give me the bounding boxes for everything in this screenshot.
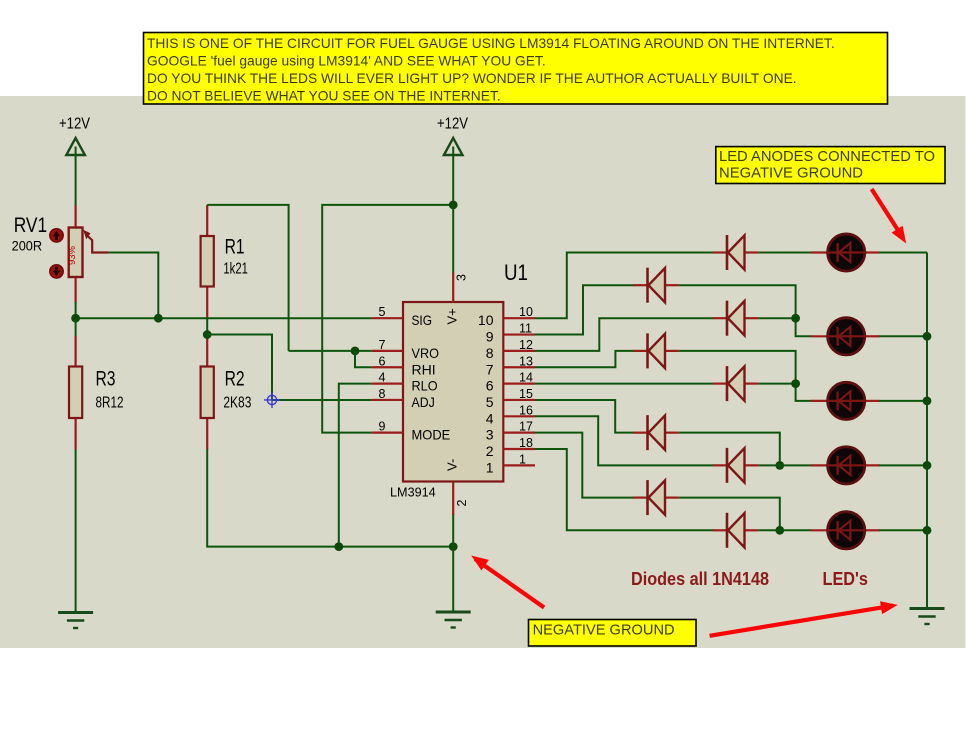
svg-text:6: 6 xyxy=(379,354,386,368)
LED D14 xyxy=(811,512,880,549)
+12V power symbol (left) xyxy=(59,115,90,155)
svg-text:8: 8 xyxy=(486,345,494,361)
svg-text:RLO: RLO xyxy=(412,378,438,394)
pin 7 stub (VRO) xyxy=(372,338,439,361)
wire +12V right down to node xyxy=(452,147,454,205)
pin 16 stub (LED output L4) xyxy=(486,403,535,426)
svg-text:NEGATIVE GROUND: NEGATIVE GROUND xyxy=(719,166,863,182)
wire D5 to junction xyxy=(758,383,795,385)
svg-text:200R: 200R xyxy=(12,238,42,254)
wire RHI branch xyxy=(355,351,372,367)
diode D2 1N4148 xyxy=(634,268,679,303)
wire pin15 to D6 xyxy=(535,400,635,433)
value 1k21 xyxy=(223,260,248,277)
pin 10 stub (LED output L10) xyxy=(478,305,535,328)
wire pin12 to D3 xyxy=(535,318,714,351)
junction RLO on negative rail xyxy=(334,542,343,551)
junction R1/R2/ADJ node xyxy=(203,330,212,339)
svg-text:5: 5 xyxy=(379,305,386,319)
wire VRO net xyxy=(289,350,372,352)
svg-text:2: 2 xyxy=(455,500,469,507)
wire right bus xyxy=(926,253,928,609)
svg-text:4: 4 xyxy=(379,371,386,385)
svg-text:10: 10 xyxy=(519,305,533,319)
svg-text:7: 7 xyxy=(486,361,494,377)
label R2 xyxy=(225,367,245,390)
svg-text:3: 3 xyxy=(486,427,494,443)
LED D10 xyxy=(811,234,880,271)
svg-text:R3: R3 xyxy=(96,367,116,390)
svg-text:SIG: SIG xyxy=(412,312,433,328)
wire R2 bottom to negative rail xyxy=(207,449,453,547)
wire pin18 to D9 xyxy=(535,449,714,530)
junction bus LED2 xyxy=(923,332,932,341)
svg-text:18: 18 xyxy=(519,436,533,450)
value 2K83 xyxy=(223,394,251,411)
wire R3 bottom to ground xyxy=(75,449,77,612)
junction pin2 on negative rail xyxy=(449,542,458,551)
annotation box: LED anodes xyxy=(716,147,945,184)
pin 14 stub (LED output L6) xyxy=(486,371,535,394)
junction bus LED3 xyxy=(923,397,932,406)
svg-text:DO NOT BELIEVE WHAT YOU SEE ON: DO NOT BELIEVE WHAT YOU SEE ON THE INTER… xyxy=(147,89,501,104)
label R3 xyxy=(96,367,116,390)
RV1 decrement button (down arrow) xyxy=(50,265,63,278)
label RV1 xyxy=(14,214,48,237)
svg-text:1k21: 1k21 xyxy=(223,260,248,277)
wire LED2 to bus xyxy=(879,335,927,337)
wire pin13 to D4 xyxy=(535,351,635,367)
diode D4 1N4148 xyxy=(634,333,679,368)
diode D1 1N4148 xyxy=(713,235,758,270)
diode D9 1N4148 xyxy=(713,513,758,548)
svg-text:4: 4 xyxy=(486,410,494,426)
wire D6 down to LED4 row xyxy=(679,433,780,466)
ground (left) xyxy=(58,613,93,629)
pin 15 stub (LED output L5) xyxy=(486,387,535,410)
svg-text:5: 5 xyxy=(486,394,494,410)
svg-text:VRO: VRO xyxy=(412,345,440,361)
pin number 2 xyxy=(455,500,469,507)
label R1 xyxy=(225,236,245,259)
resistor R3 xyxy=(69,336,82,450)
wire rail down to R3 xyxy=(75,318,77,336)
wire D1 to LED1 xyxy=(758,252,811,254)
wire pin11 to D2 xyxy=(535,285,635,334)
svg-text:ADJ: ADJ xyxy=(412,394,435,410)
RV1 increment button (up arrow) xyxy=(50,229,63,242)
wire LED3 to bus xyxy=(879,400,927,402)
resistor R1 xyxy=(201,205,214,318)
svg-text:9: 9 xyxy=(379,420,386,434)
LED D13 xyxy=(811,447,880,484)
pin 11 stub (LED output L9) xyxy=(486,322,535,345)
svg-text:RV1: RV1 xyxy=(14,214,48,237)
svg-text:R1: R1 xyxy=(225,236,245,259)
svg-text:10: 10 xyxy=(478,312,494,328)
annotation box: internet warning xyxy=(144,33,888,105)
svg-text:MODE: MODE xyxy=(412,427,451,443)
svg-text:LED ANODES CONNECTED TO: LED ANODES CONNECTED TO xyxy=(719,149,935,165)
svg-text:9: 9 xyxy=(486,329,494,345)
svg-text:6: 6 xyxy=(486,378,494,394)
svg-text:V-: V- xyxy=(445,459,460,471)
label LM3914 xyxy=(390,484,436,499)
svg-text:V+: V+ xyxy=(445,308,460,324)
annotation box: negative ground xyxy=(529,620,697,647)
LED D11 xyxy=(811,318,880,355)
wire V+ node down to pin 3 xyxy=(452,205,454,274)
junction D3/LED2 net xyxy=(791,314,800,323)
junction bus LED5 xyxy=(923,526,932,535)
potentiometer RV1 body xyxy=(67,205,82,303)
wire D2 down to LED2 row xyxy=(679,285,811,336)
svg-text:17: 17 xyxy=(519,420,533,434)
junction D8/LED5 net xyxy=(775,526,784,535)
pin name V+ xyxy=(445,308,460,324)
pin 6 stub (RHI) xyxy=(372,354,436,377)
op-amp U1 LM3914 body xyxy=(403,302,503,482)
wire D9 to LED5 xyxy=(758,529,811,531)
wire LED4 to bus xyxy=(879,464,927,466)
pin name V- xyxy=(445,459,460,471)
diode D8 1N4148 xyxy=(634,480,679,515)
svg-text:GOOGLE 'fuel gauge using LM391: GOOGLE 'fuel gauge using LM3914' AND SEE… xyxy=(147,54,546,69)
svg-text:LED's: LED's xyxy=(823,568,869,589)
svg-text:8R12: 8R12 xyxy=(96,394,124,411)
diode D5 1N4148 xyxy=(713,366,758,401)
junction at RV1 bottom xyxy=(71,314,80,323)
svg-text:1: 1 xyxy=(519,452,526,466)
diode D6 1N4148 xyxy=(634,415,679,450)
pin 2 stub (V-) xyxy=(452,482,454,516)
wire D4 down to LED3 row xyxy=(679,351,811,401)
label LED's xyxy=(823,568,869,589)
pin 1 stub (LED output L1) xyxy=(486,452,535,475)
wire R1 top to VRO column xyxy=(207,205,288,351)
svg-text:93%: 93% xyxy=(67,245,78,265)
wire pin16 to D7 xyxy=(535,416,714,465)
junction D5/LED3 net xyxy=(791,379,800,388)
ground (right) xyxy=(910,609,945,625)
svg-text:2: 2 xyxy=(486,443,494,459)
wire MODE to +12V rail xyxy=(322,205,453,433)
pin 3 stub (V+) xyxy=(452,273,454,303)
svg-text:R2: R2 xyxy=(225,367,245,390)
+12V power symbol (right) xyxy=(437,115,468,155)
ground (middle) xyxy=(436,612,471,628)
svg-text:NEGATIVE GROUND: NEGATIVE GROUND xyxy=(533,623,675,639)
svg-text:15: 15 xyxy=(519,387,533,401)
svg-text:+12V: +12V xyxy=(59,115,90,132)
origin marker on ADJ wire xyxy=(264,392,280,408)
wire LED5 to bus xyxy=(879,529,927,531)
svg-text:14: 14 xyxy=(519,371,533,385)
junction VRO/RHI xyxy=(351,347,360,356)
wire pin2 to ground xyxy=(452,514,454,612)
svg-text:16: 16 xyxy=(519,403,533,417)
svg-text:+12V: +12V xyxy=(437,115,468,132)
junction bus LED4 xyxy=(923,461,932,470)
svg-text:DO YOU THINK THE LEDS WILL EVE: DO YOU THINK THE LEDS WILL EVER LIGHT UP… xyxy=(147,71,797,86)
value 200R xyxy=(12,238,42,254)
diode D3 1N4148 xyxy=(713,301,758,336)
svg-text:RHI: RHI xyxy=(412,361,436,377)
wire pin17 to D8 xyxy=(535,433,635,498)
pin 17 stub (LED output L3) xyxy=(486,420,535,443)
pin 18 stub (LED output L2) xyxy=(486,436,535,459)
wire D3 to junction xyxy=(758,317,795,319)
wire RV1 wiper to SIG rail xyxy=(109,253,159,319)
pin 8 stub (ADJ) xyxy=(372,387,435,410)
pin 12 stub (LED output L8) xyxy=(486,338,535,361)
pin 4 stub (RLO) xyxy=(372,371,438,394)
value 8R12 xyxy=(96,394,124,411)
svg-text:8: 8 xyxy=(379,387,386,401)
label U1 xyxy=(504,260,528,285)
wire LED1 to bus corner xyxy=(879,252,927,254)
wire pin10 to D1 xyxy=(535,253,714,319)
svg-text:Diodes all 1N4148: Diodes all 1N4148 xyxy=(631,568,769,589)
diode D7 1N4148 xyxy=(713,448,758,483)
annotation arrow to LED bus xyxy=(872,189,907,244)
svg-text:2K83: 2K83 xyxy=(223,394,251,411)
pin 5 stub (SIG) xyxy=(372,305,432,328)
wire pin14 to D5 xyxy=(535,383,714,385)
pin number 3 xyxy=(455,274,469,281)
label Diodes all 1N4148 xyxy=(631,568,769,589)
junction D6/LED4 net xyxy=(775,461,784,470)
wire D7 to LED4 xyxy=(758,464,811,466)
wire D8 down to LED5 row xyxy=(679,498,780,531)
pin 13 stub (LED output L7) xyxy=(486,354,535,377)
svg-text:U1: U1 xyxy=(504,260,528,285)
svg-text:1: 1 xyxy=(486,459,494,475)
wire ADJ net xyxy=(207,335,372,400)
pin 9 stub (MODE) xyxy=(372,420,451,443)
schematic sheet background xyxy=(0,96,966,648)
svg-text:3: 3 xyxy=(455,274,469,281)
wire RLO to negative rail xyxy=(339,384,372,547)
junction wiper drop xyxy=(154,314,163,323)
RV1 wiper arrow xyxy=(83,230,108,253)
resistor R2 xyxy=(201,336,214,450)
wire R1 bottom to R2 top xyxy=(206,317,208,336)
junction +12V / pin3 xyxy=(449,201,458,210)
svg-text:THIS IS ONE OF THE CIRCUIT FOR: THIS IS ONE OF THE CIRCUIT FOR FUEL GAUG… xyxy=(147,36,835,51)
annotation arrow to right ground xyxy=(710,601,898,636)
wire +12V left down to RV1 xyxy=(75,147,77,206)
svg-text:7: 7 xyxy=(379,338,386,352)
svg-text:11: 11 xyxy=(519,322,532,336)
wire RV1 bottom to rail xyxy=(75,302,77,318)
LED D12 xyxy=(811,382,880,419)
wire SIG rail xyxy=(76,317,372,319)
annotation arrow to negative rail junction xyxy=(471,556,544,608)
svg-text:12: 12 xyxy=(519,338,533,352)
svg-text:13: 13 xyxy=(519,354,533,368)
svg-text:LM3914: LM3914 xyxy=(390,484,436,499)
